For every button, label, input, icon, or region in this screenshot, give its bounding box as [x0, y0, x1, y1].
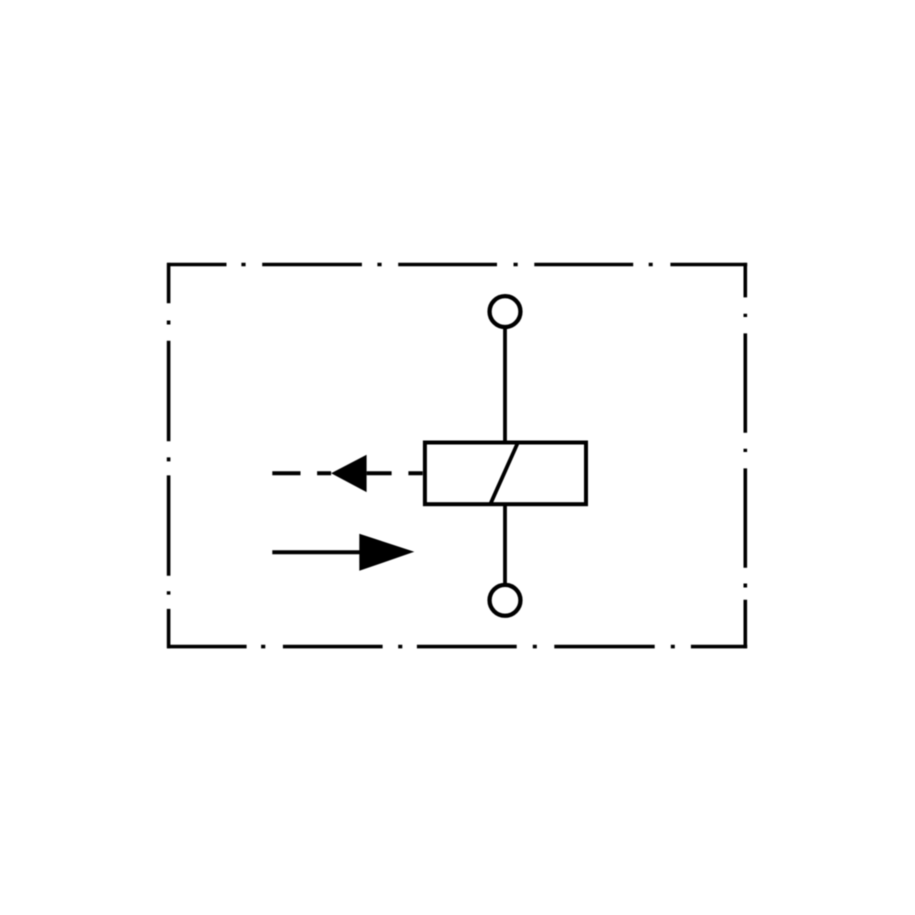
wire from box to bottom terminal: [503, 504, 507, 584]
diagonal slash inside box: [490, 443, 518, 505]
arrowhead right-pointing on solid line: [359, 534, 414, 571]
arrowhead left-pointing on dashed line: [331, 455, 367, 492]
component box U1: [425, 443, 586, 505]
enclosure border bottom (dash-dot): [167, 645, 747, 649]
dashed control line to box: [272, 471, 422, 475]
solid arrow line: [272, 550, 362, 554]
wire from top terminal to box: [503, 329, 507, 445]
terminal circle top: [490, 296, 521, 327]
enclosure border top (dash-dot): [167, 263, 747, 267]
enclosure border right (dash-dot): [743, 263, 747, 648]
enclosure border left (dash-dot): [167, 263, 171, 648]
terminal circle bottom: [490, 585, 521, 616]
